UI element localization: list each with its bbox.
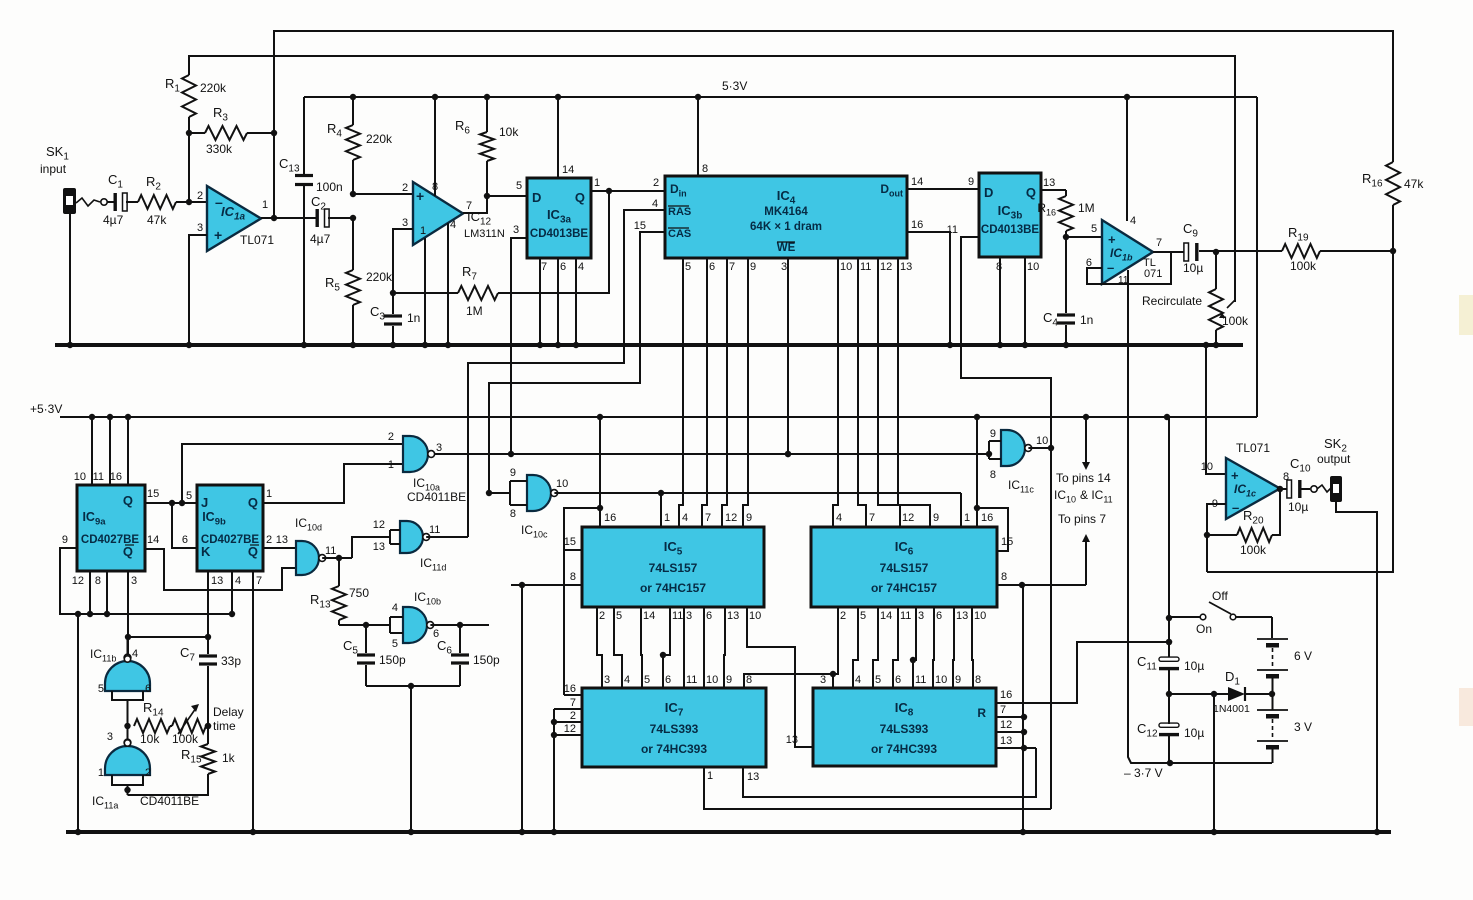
svg-text:LM311N: LM311N	[464, 228, 505, 240]
svg-text:10: 10	[935, 674, 947, 686]
svg-text:071: 071	[1144, 268, 1162, 280]
wire IC9a pin3 clock	[127, 571, 129, 654]
svg-text:R6: R6	[455, 118, 470, 137]
svg-text:16: 16	[564, 683, 576, 695]
svg-text:6: 6	[936, 610, 942, 622]
svg-text:or 74HC393: or 74HC393	[641, 742, 707, 756]
svg-text:1N4001: 1N4001	[1213, 703, 1250, 715]
svg-text:or 74HC393: or 74HC393	[871, 742, 937, 756]
svg-text:10µ: 10µ	[1288, 500, 1308, 514]
svg-text:14: 14	[562, 164, 574, 176]
svg-text:Q: Q	[248, 495, 258, 510]
svg-text:IC10: IC10	[1054, 488, 1076, 505]
svg-text:Q: Q	[575, 190, 585, 205]
wire IC4 Dout to IC3b D	[907, 188, 979, 190]
dram IC4	[665, 176, 907, 258]
resistor R19	[1199, 250, 1282, 252]
svg-text:C6: C6	[437, 638, 452, 657]
svg-text:13: 13	[1043, 177, 1055, 189]
svg-text:CD4027BE: CD4027BE	[201, 534, 259, 546]
svg-text:10: 10	[1036, 435, 1048, 447]
svg-text:C5: C5	[343, 638, 358, 657]
gate IC10d	[296, 541, 319, 575]
svg-text:7: 7	[869, 512, 875, 524]
svg-text:15: 15	[564, 536, 576, 548]
svg-text:1M: 1M	[1078, 201, 1095, 215]
wire IC1b feedback loop	[1087, 252, 1171, 284]
wire IC1a pin3 to ground rail	[189, 235, 207, 345]
wire IC3b pin8 to ground	[999, 257, 1001, 345]
wire 5.3V rail right end down to +5.3V rail	[1256, 97, 1258, 417]
svg-text:6: 6	[706, 610, 712, 622]
svg-text:13: 13	[727, 610, 739, 622]
svg-text:10: 10	[840, 261, 852, 273]
potentiometer recirculate 100k	[1215, 252, 1217, 289]
wire IC9a pin11 supply	[109, 417, 111, 485]
wire ground drop left	[77, 614, 79, 832]
svg-text:15: 15	[147, 488, 159, 500]
resistor R20	[1207, 534, 1237, 536]
gate IC10a	[403, 436, 428, 472]
svg-text:9: 9	[990, 428, 996, 440]
svg-text:R20: R20	[1243, 508, 1264, 527]
svg-text:1: 1	[707, 770, 713, 782]
wire IC7 pin1 clock	[704, 767, 1051, 809]
svg-text:4: 4	[682, 512, 688, 524]
svg-text:13: 13	[900, 261, 912, 273]
wire IC9a pin9 reset loop	[60, 548, 232, 614]
svg-text:CAS: CAS	[668, 228, 691, 240]
wire IC7 pin8 from IC6 pin2	[744, 607, 838, 688]
svg-text:+: +	[416, 188, 424, 204]
svg-text:D: D	[532, 190, 541, 205]
svg-text:9: 9	[746, 512, 752, 524]
wire IC5 pin16 supply	[599, 417, 601, 527]
svg-text:5: 5	[875, 674, 881, 686]
wire IC9b Q to IC10a pin1	[263, 464, 403, 503]
svg-text:2: 2	[570, 710, 576, 722]
svg-text:2: 2	[840, 610, 846, 622]
svg-text:C3: C3	[370, 304, 385, 323]
node output circle	[1311, 486, 1317, 492]
svg-text:2: 2	[197, 190, 203, 202]
op-amp IC1c	[1226, 458, 1280, 519]
wire IC7 pin13	[743, 748, 1036, 797]
wire IC5 inputs from IC7 outputs	[597, 607, 602, 688]
svg-text:12: 12	[1000, 719, 1012, 731]
wire select to IC5 pin1	[660, 493, 662, 527]
svg-text:1k: 1k	[222, 751, 236, 765]
svg-text:1: 1	[594, 177, 600, 189]
svg-text:D: D	[984, 185, 993, 200]
wire IC11a input tie	[112, 775, 143, 785]
svg-text:Q: Q	[248, 544, 258, 559]
svg-text:C1: C1	[108, 172, 123, 191]
wire clock tie	[128, 636, 208, 638]
wire IC3b pin11 clock net	[961, 237, 1051, 809]
svg-text:+: +	[214, 227, 222, 243]
wire IC9b Qbar to IC10d pin13	[263, 547, 296, 549]
svg-text:13: 13	[956, 610, 968, 622]
socket SK1 input jack	[63, 188, 76, 214]
wire IC6 inputs from IC8 outputs	[853, 607, 858, 688]
svg-text:150p: 150p	[379, 653, 406, 667]
wire IC11b output to clock node	[127, 637, 129, 655]
svg-text:8: 8	[746, 674, 752, 686]
svg-text:Q: Q	[123, 544, 133, 559]
svg-text:16: 16	[981, 512, 993, 524]
wire IC8 ground drop	[1022, 585, 1024, 832]
svg-text:12: 12	[564, 723, 576, 735]
svg-text:2: 2	[388, 431, 394, 443]
wire IC12 pin2 row	[353, 193, 413, 195]
resistor R16 47k	[1386, 162, 1400, 205]
svg-text:–: –	[215, 194, 223, 210]
svg-text:10: 10	[74, 471, 86, 483]
svg-text:+: +	[1231, 468, 1239, 483]
wire IC11c output	[1028, 447, 1051, 449]
mux IC5	[582, 527, 764, 607]
capacitor C7	[199, 654, 217, 657]
counter IC8	[813, 688, 996, 766]
wire IC3a pin3 clock from IC10a	[511, 238, 527, 454]
svg-text:C13: C13	[279, 156, 300, 175]
svg-text:4: 4	[1130, 215, 1136, 227]
svg-text:6: 6	[560, 261, 566, 273]
svg-text:47k: 47k	[147, 213, 167, 227]
svg-text:1: 1	[262, 199, 268, 211]
svg-text:MK4164: MK4164	[764, 206, 808, 218]
capacitor C3	[392, 293, 394, 314]
flip-flop IC9b	[197, 485, 263, 571]
svg-text:3: 3	[131, 575, 137, 587]
svg-text:output: output	[1317, 452, 1351, 466]
wire IC9b pin13 clock	[207, 571, 209, 654]
wire IC9a pin12	[89, 571, 91, 614]
wire IC8 pin16 supply from battery	[996, 642, 1169, 703]
wire IC3a bottom pin7	[539, 258, 541, 345]
svg-text:8: 8	[990, 469, 996, 481]
capacitor C4	[1065, 237, 1067, 313]
wire IC9a Q to IC9b K	[172, 503, 197, 548]
wire recirculate wiper line to R1 top	[189, 56, 1235, 302]
svg-text:TL071: TL071	[240, 233, 274, 247]
svg-text:or 74HC157: or 74HC157	[871, 581, 937, 595]
svg-text:RAS: RAS	[668, 206, 691, 218]
resistor R13	[338, 558, 340, 586]
svg-text:C7: C7	[180, 645, 195, 664]
wire IC3a bottom pin6	[557, 258, 559, 345]
wire IC1a output row	[261, 217, 316, 219]
diode D1 1N4001	[1169, 693, 1228, 695]
svg-text:47k: 47k	[1404, 177, 1424, 191]
capacitor C13 decoupling	[303, 97, 305, 174]
svg-text:33p: 33p	[221, 654, 241, 668]
capacitor C6	[459, 625, 461, 653]
svg-text:10: 10	[556, 478, 568, 490]
svg-text:5: 5	[98, 683, 104, 695]
svg-text:6: 6	[182, 534, 188, 546]
wire supply to switch	[1168, 417, 1170, 660]
svg-text:4: 4	[392, 602, 398, 614]
svg-text:5: 5	[860, 610, 866, 622]
svg-text:10k: 10k	[140, 732, 160, 746]
wire IC1c pin10 bias	[1203, 342, 1209, 348]
svg-text:7: 7	[705, 512, 711, 524]
svg-text:11: 11	[325, 545, 336, 557]
wire IC1c pin9 node	[1207, 504, 1226, 572]
wire IC1b pin4 supply	[1126, 97, 1128, 221]
svg-text:9: 9	[968, 176, 974, 188]
svg-text:12: 12	[902, 512, 914, 524]
svg-text:13: 13	[1000, 735, 1012, 747]
gate output node IC10d	[322, 557, 352, 559]
wire IC4 CAS from IC10b	[489, 232, 665, 493]
svg-text:3: 3	[820, 674, 826, 686]
svg-text:R3: R3	[213, 105, 228, 124]
svg-text:16: 16	[110, 471, 122, 483]
svg-text:10µ: 10µ	[1184, 726, 1204, 740]
wire IC5 pin8 ground	[511, 584, 582, 586]
svg-text:1: 1	[266, 488, 272, 500]
wire IC8 reset pins	[996, 716, 1024, 718]
wire IC10c output select line	[554, 492, 961, 494]
svg-text:10: 10	[1027, 261, 1039, 273]
svg-text:8: 8	[510, 508, 516, 520]
supply rail +5.3V	[60, 416, 1257, 418]
svg-text:3: 3	[781, 261, 787, 273]
svg-text:C11: C11	[1137, 654, 1157, 673]
svg-text:1: 1	[98, 767, 104, 779]
wire 0V tap to bottom rail	[1213, 694, 1215, 832]
svg-text:5: 5	[516, 180, 522, 192]
svg-text:CD4013BE: CD4013BE	[530, 228, 588, 240]
svg-text:15: 15	[634, 220, 646, 232]
gate IC10c	[527, 475, 551, 511]
svg-text:& IC11: & IC11	[1080, 488, 1113, 505]
wire IC6 pin15 strobe	[977, 508, 1008, 551]
label to pins 14 arrow	[1085, 417, 1087, 466]
svg-text:To pins 7: To pins 7	[1058, 512, 1106, 526]
wire IC9a pin8	[106, 571, 108, 614]
resistor R2	[138, 195, 176, 209]
svg-text:1: 1	[664, 512, 670, 524]
svg-text:+5·3V: +5·3V	[30, 402, 62, 416]
svg-text:R13: R13	[310, 592, 331, 611]
wire IC12 pin8	[434, 97, 436, 196]
svg-text:3: 3	[918, 610, 924, 622]
gate IC11a	[105, 746, 150, 775]
wire select to IC6 pin1	[960, 493, 962, 527]
svg-text:1: 1	[964, 512, 970, 524]
svg-text:10: 10	[974, 610, 986, 622]
wire IC6 pin16 supply	[976, 417, 978, 527]
svg-text:9: 9	[933, 512, 939, 524]
capacitor C5	[365, 625, 367, 653]
svg-text:+: +	[1108, 232, 1116, 247]
svg-text:10: 10	[1201, 461, 1213, 473]
svg-text:16: 16	[604, 512, 616, 524]
svg-text:9: 9	[510, 467, 516, 479]
wire IC7 left pins ground	[554, 708, 582, 710]
capacitor C2	[316, 209, 319, 227]
svg-text:C9: C9	[1183, 221, 1198, 240]
svg-text:1n: 1n	[407, 311, 420, 325]
svg-text:IC11c: IC11c	[1008, 478, 1034, 495]
node delay time	[205, 723, 211, 729]
wire IC3b pin10 to ground	[1024, 257, 1026, 345]
svg-text:input: input	[40, 162, 67, 176]
svg-text:8: 8	[702, 163, 708, 175]
svg-text:8: 8	[996, 261, 1002, 273]
svg-text:8: 8	[95, 575, 101, 587]
wire IC10a output line	[435, 453, 990, 455]
svg-text:J: J	[201, 495, 208, 510]
svg-text:To pins 14: To pins 14	[1056, 471, 1111, 485]
svg-text:7: 7	[1000, 704, 1006, 716]
svg-text:220k: 220k	[366, 132, 393, 146]
battery 6V	[1257, 638, 1288, 640]
svg-text:8: 8	[570, 571, 576, 583]
svg-text:13: 13	[373, 541, 385, 553]
switch on off	[1169, 616, 1200, 618]
svg-text:64K × 1 dram: 64K × 1 dram	[750, 221, 822, 233]
svg-text:13: 13	[747, 771, 759, 783]
svg-text:11: 11	[672, 610, 683, 622]
svg-text:12: 12	[725, 512, 737, 524]
svg-text:15: 15	[1001, 536, 1013, 548]
node 5.3V rail	[304, 96, 1257, 98]
svg-text:2: 2	[145, 767, 151, 779]
svg-text:5·3V: 5·3V	[722, 79, 747, 93]
svg-text:4: 4	[578, 261, 584, 273]
svg-text:5: 5	[186, 490, 192, 502]
resistor R7	[393, 292, 458, 294]
svg-text:–: –	[1232, 500, 1239, 515]
svg-text:3: 3	[107, 731, 113, 743]
svg-text:220k: 220k	[366, 270, 393, 284]
wire IC3a pin14 supply	[557, 97, 559, 178]
svg-text:8: 8	[975, 674, 981, 686]
svg-text:4: 4	[836, 512, 842, 524]
svg-text:R14: R14	[143, 700, 164, 719]
svg-text:14: 14	[643, 610, 655, 622]
svg-text:74LS157: 74LS157	[880, 561, 929, 575]
resistor R6	[486, 97, 488, 132]
svg-text:750: 750	[349, 586, 369, 600]
svg-text:R5: R5	[325, 275, 340, 294]
gate IC11b	[105, 661, 150, 691]
svg-text:CD4011BE: CD4011BE	[140, 794, 199, 808]
svg-text:4: 4	[652, 198, 658, 210]
wire IC3a bottom pin4	[575, 258, 577, 345]
svg-text:13: 13	[211, 575, 223, 587]
svg-text:1: 1	[388, 459, 394, 471]
svg-text:100k: 100k	[172, 732, 199, 746]
wire IC9b pin7 ground	[252, 571, 254, 832]
wire IC6 pin8 ground	[997, 584, 1086, 586]
svg-text:CD4013BE: CD4013BE	[981, 224, 1039, 236]
svg-text:2: 2	[599, 610, 605, 622]
svg-text:6: 6	[709, 261, 715, 273]
svg-text:11: 11	[860, 261, 871, 273]
svg-text:4: 4	[235, 575, 241, 587]
resistor R3	[189, 132, 205, 134]
wire IC9a Qbar to IC10d pin12	[145, 549, 296, 590]
wire IC7 pin16 supply	[564, 694, 582, 696]
svg-text:16: 16	[1000, 689, 1012, 701]
wire IC12 output to R6 node	[463, 196, 487, 213]
svg-text:4µ7: 4µ7	[310, 232, 331, 246]
svg-text:11: 11	[429, 524, 440, 536]
svg-text:10µ: 10µ	[1183, 261, 1203, 275]
capacitor C10	[1287, 480, 1292, 498]
svg-text:74LS393: 74LS393	[650, 722, 699, 736]
flip-flop IC3b	[979, 173, 1041, 257]
svg-text:CD4027BE: CD4027BE	[81, 534, 139, 546]
wire IC4 address pins 10 11 12 13 to IC6 outputs	[833, 258, 838, 527]
capacitor C11	[1159, 657, 1179, 661]
svg-text:8: 8	[1001, 571, 1007, 583]
svg-text:Recirculate: Recirculate	[1142, 294, 1202, 308]
svg-text:4: 4	[855, 674, 861, 686]
svg-text:time: time	[213, 719, 236, 733]
svg-text:11: 11	[947, 224, 958, 236]
svg-text:2: 2	[402, 182, 408, 194]
gate IC10b	[403, 607, 427, 643]
svg-text:IC11a: IC11a	[92, 794, 118, 811]
svg-text:Delay: Delay	[213, 705, 244, 719]
wire IC9a Q to IC9b J	[145, 502, 197, 504]
svg-text:6: 6	[665, 674, 671, 686]
wire IC12 pin4 to ground	[447, 223, 449, 345]
wire mix feed from R19 R16	[1207, 251, 1393, 572]
svg-text:6: 6	[145, 683, 151, 695]
gate IC11c	[1001, 430, 1025, 466]
wire top feedback line from IC1a output to R16 47k	[274, 31, 1393, 219]
capacitor C1	[114, 193, 117, 211]
svg-text:IC10b: IC10b	[414, 590, 441, 607]
svg-text:3: 3	[436, 442, 442, 454]
svg-text:11: 11	[686, 674, 697, 686]
resistor R1	[182, 75, 196, 117]
svg-text:100k: 100k	[1240, 543, 1267, 557]
svg-text:2: 2	[266, 534, 272, 546]
resistor R16 1M	[1041, 189, 1066, 191]
svg-text:R: R	[977, 706, 986, 720]
resistor R14 with pot	[134, 719, 170, 733]
ground rail 0V	[55, 343, 1243, 347]
wire IC5 pin10 to IC8 pin13	[747, 607, 813, 747]
svg-text:13: 13	[276, 534, 288, 546]
svg-text:14: 14	[880, 610, 892, 622]
svg-text:4: 4	[450, 219, 456, 231]
wire IC12 pin3 loop	[393, 229, 413, 293]
op-amp IC1b	[1102, 220, 1153, 284]
svg-text:5: 5	[392, 638, 398, 650]
svg-text:11: 11	[93, 471, 104, 483]
svg-text:IC11d: IC11d	[420, 556, 446, 573]
wire IC1c output	[1280, 488, 1288, 490]
svg-text:D1: D1	[1225, 669, 1240, 688]
svg-text:14: 14	[911, 176, 923, 188]
svg-text:12: 12	[72, 575, 84, 587]
svg-text:Off: Off	[1212, 589, 1228, 603]
svg-text:11: 11	[915, 674, 926, 686]
svg-text:C4: C4	[1043, 310, 1058, 329]
svg-text:IC10d: IC10d	[295, 516, 322, 533]
capacitor C12	[1159, 723, 1179, 727]
